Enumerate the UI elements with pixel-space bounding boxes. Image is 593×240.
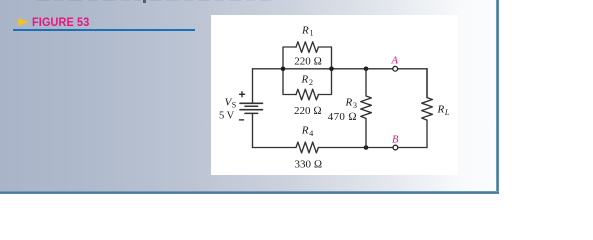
wire: R2 branch loop — [283, 69, 332, 95]
label RL — [437, 103, 450, 117]
svg-text:4: 4 — [309, 129, 313, 138]
polarity minus sign — [239, 119, 243, 121]
resistor R1 — [296, 42, 318, 53]
svg-text:470 Ω: 470 Ω — [328, 111, 357, 123]
cropped text remnant at top — [37, 0, 49, 1]
caption underline — [13, 29, 195, 30]
wire: right rail — [426, 69, 428, 148]
label node B — [392, 135, 399, 146]
label 5 V — [219, 111, 235, 122]
label R3 — [345, 97, 358, 110]
svg-text:3: 3 — [353, 101, 357, 110]
svg-text:A: A — [391, 56, 399, 67]
wire: top rail — [253, 68, 428, 70]
junction dot right of parallel block — [329, 67, 334, 72]
figure pointer triangle — [0, 0, 40, 40]
resistor R2 — [296, 89, 318, 100]
svg-text:330 Ω: 330 Ω — [295, 159, 323, 171]
label R1 — [301, 24, 314, 37]
svg-text:L: L — [444, 108, 450, 117]
svg-text:220 Ω: 220 Ω — [294, 56, 322, 68]
label R4 — [301, 125, 314, 138]
label 220 ohm (R1) — [294, 56, 322, 68]
resistor RL — [422, 69, 433, 120]
resistor R4 — [296, 142, 318, 153]
label 330 ohm (R4) — [295, 159, 323, 171]
label R2 — [301, 73, 314, 86]
bottom border rule — [0, 191, 499, 194]
svg-text:R: R — [437, 103, 445, 115]
gradient background box — [0, 0, 497, 191]
voltage source VS battery — [240, 103, 263, 113]
label 220 ohm (R2) — [294, 105, 322, 117]
figure caption FIGURE 53 — [32, 15, 89, 29]
svg-text:R: R — [301, 24, 309, 36]
wire: bottom rail — [253, 147, 428, 149]
svg-text:1: 1 — [310, 29, 314, 38]
label VS — [225, 97, 237, 110]
junction dot left of parallel block — [281, 67, 286, 72]
svg-text:R: R — [301, 73, 309, 85]
svg-text:2: 2 — [309, 78, 313, 87]
svg-text:220 Ω: 220 Ω — [294, 105, 322, 117]
node B terminal — [393, 145, 398, 150]
white circuit panel — [211, 15, 458, 175]
label 470 ohm (R3) — [328, 111, 357, 123]
svg-text:B: B — [392, 135, 399, 146]
right border rule — [496, 0, 499, 194]
resistor R3 — [361, 69, 372, 148]
label node A — [391, 56, 399, 67]
wire: R1 branch loop — [283, 47, 332, 69]
svg-text:R: R — [301, 125, 309, 137]
svg-text:R: R — [345, 97, 353, 109]
junction dot R3 bottom — [364, 145, 369, 150]
svg-text:S: S — [232, 101, 236, 110]
node A terminal — [393, 66, 398, 71]
svg-text:5 V: 5 V — [219, 111, 235, 122]
wire: left rail — [252, 69, 254, 148]
polarity plus sign — [240, 92, 245, 97]
junction dot R3 top — [364, 67, 369, 72]
